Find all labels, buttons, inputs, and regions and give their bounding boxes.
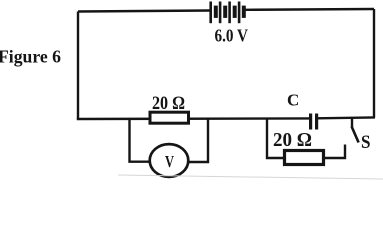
wire top-right (battery right lead) [246, 8, 375, 11]
svg-text:6.0 V: 6.0 V [215, 26, 249, 46]
wire voltmeter right drop [188, 118, 208, 162]
wire lower branch bottom right [323, 145, 345, 159]
wire top-left (battery left lead) [78, 11, 210, 12]
switch S blade [352, 127, 359, 143]
svg-text:C: C [287, 91, 299, 110]
wire middle horizontal [77, 117, 375, 119]
voltmeter V1 [150, 144, 189, 177]
battery B1 (4 cells) [211, 2, 244, 24]
wire right edge [373, 9, 375, 118]
svg-text:Figure 6: Figure 6 [0, 47, 61, 67]
svg-text:20 Ω: 20 Ω [152, 93, 185, 114]
svg-text:V: V [165, 152, 174, 171]
svg-text:S: S [361, 132, 371, 153]
wire voltmeter left drop [130, 119, 151, 162]
resistor R1 20 ohm (upper) [150, 112, 189, 123]
capacitor C [311, 114, 317, 130]
svg-text:20 Ω: 20 Ω [273, 129, 312, 151]
resistor R2 20 ohm (lower) [285, 151, 324, 165]
wire lower branch left drop [267, 119, 285, 159]
scan artifact: faint gray line bottom [118, 175, 383, 179]
switch S stub [351, 118, 353, 127]
wire left edge [77, 12, 79, 120]
